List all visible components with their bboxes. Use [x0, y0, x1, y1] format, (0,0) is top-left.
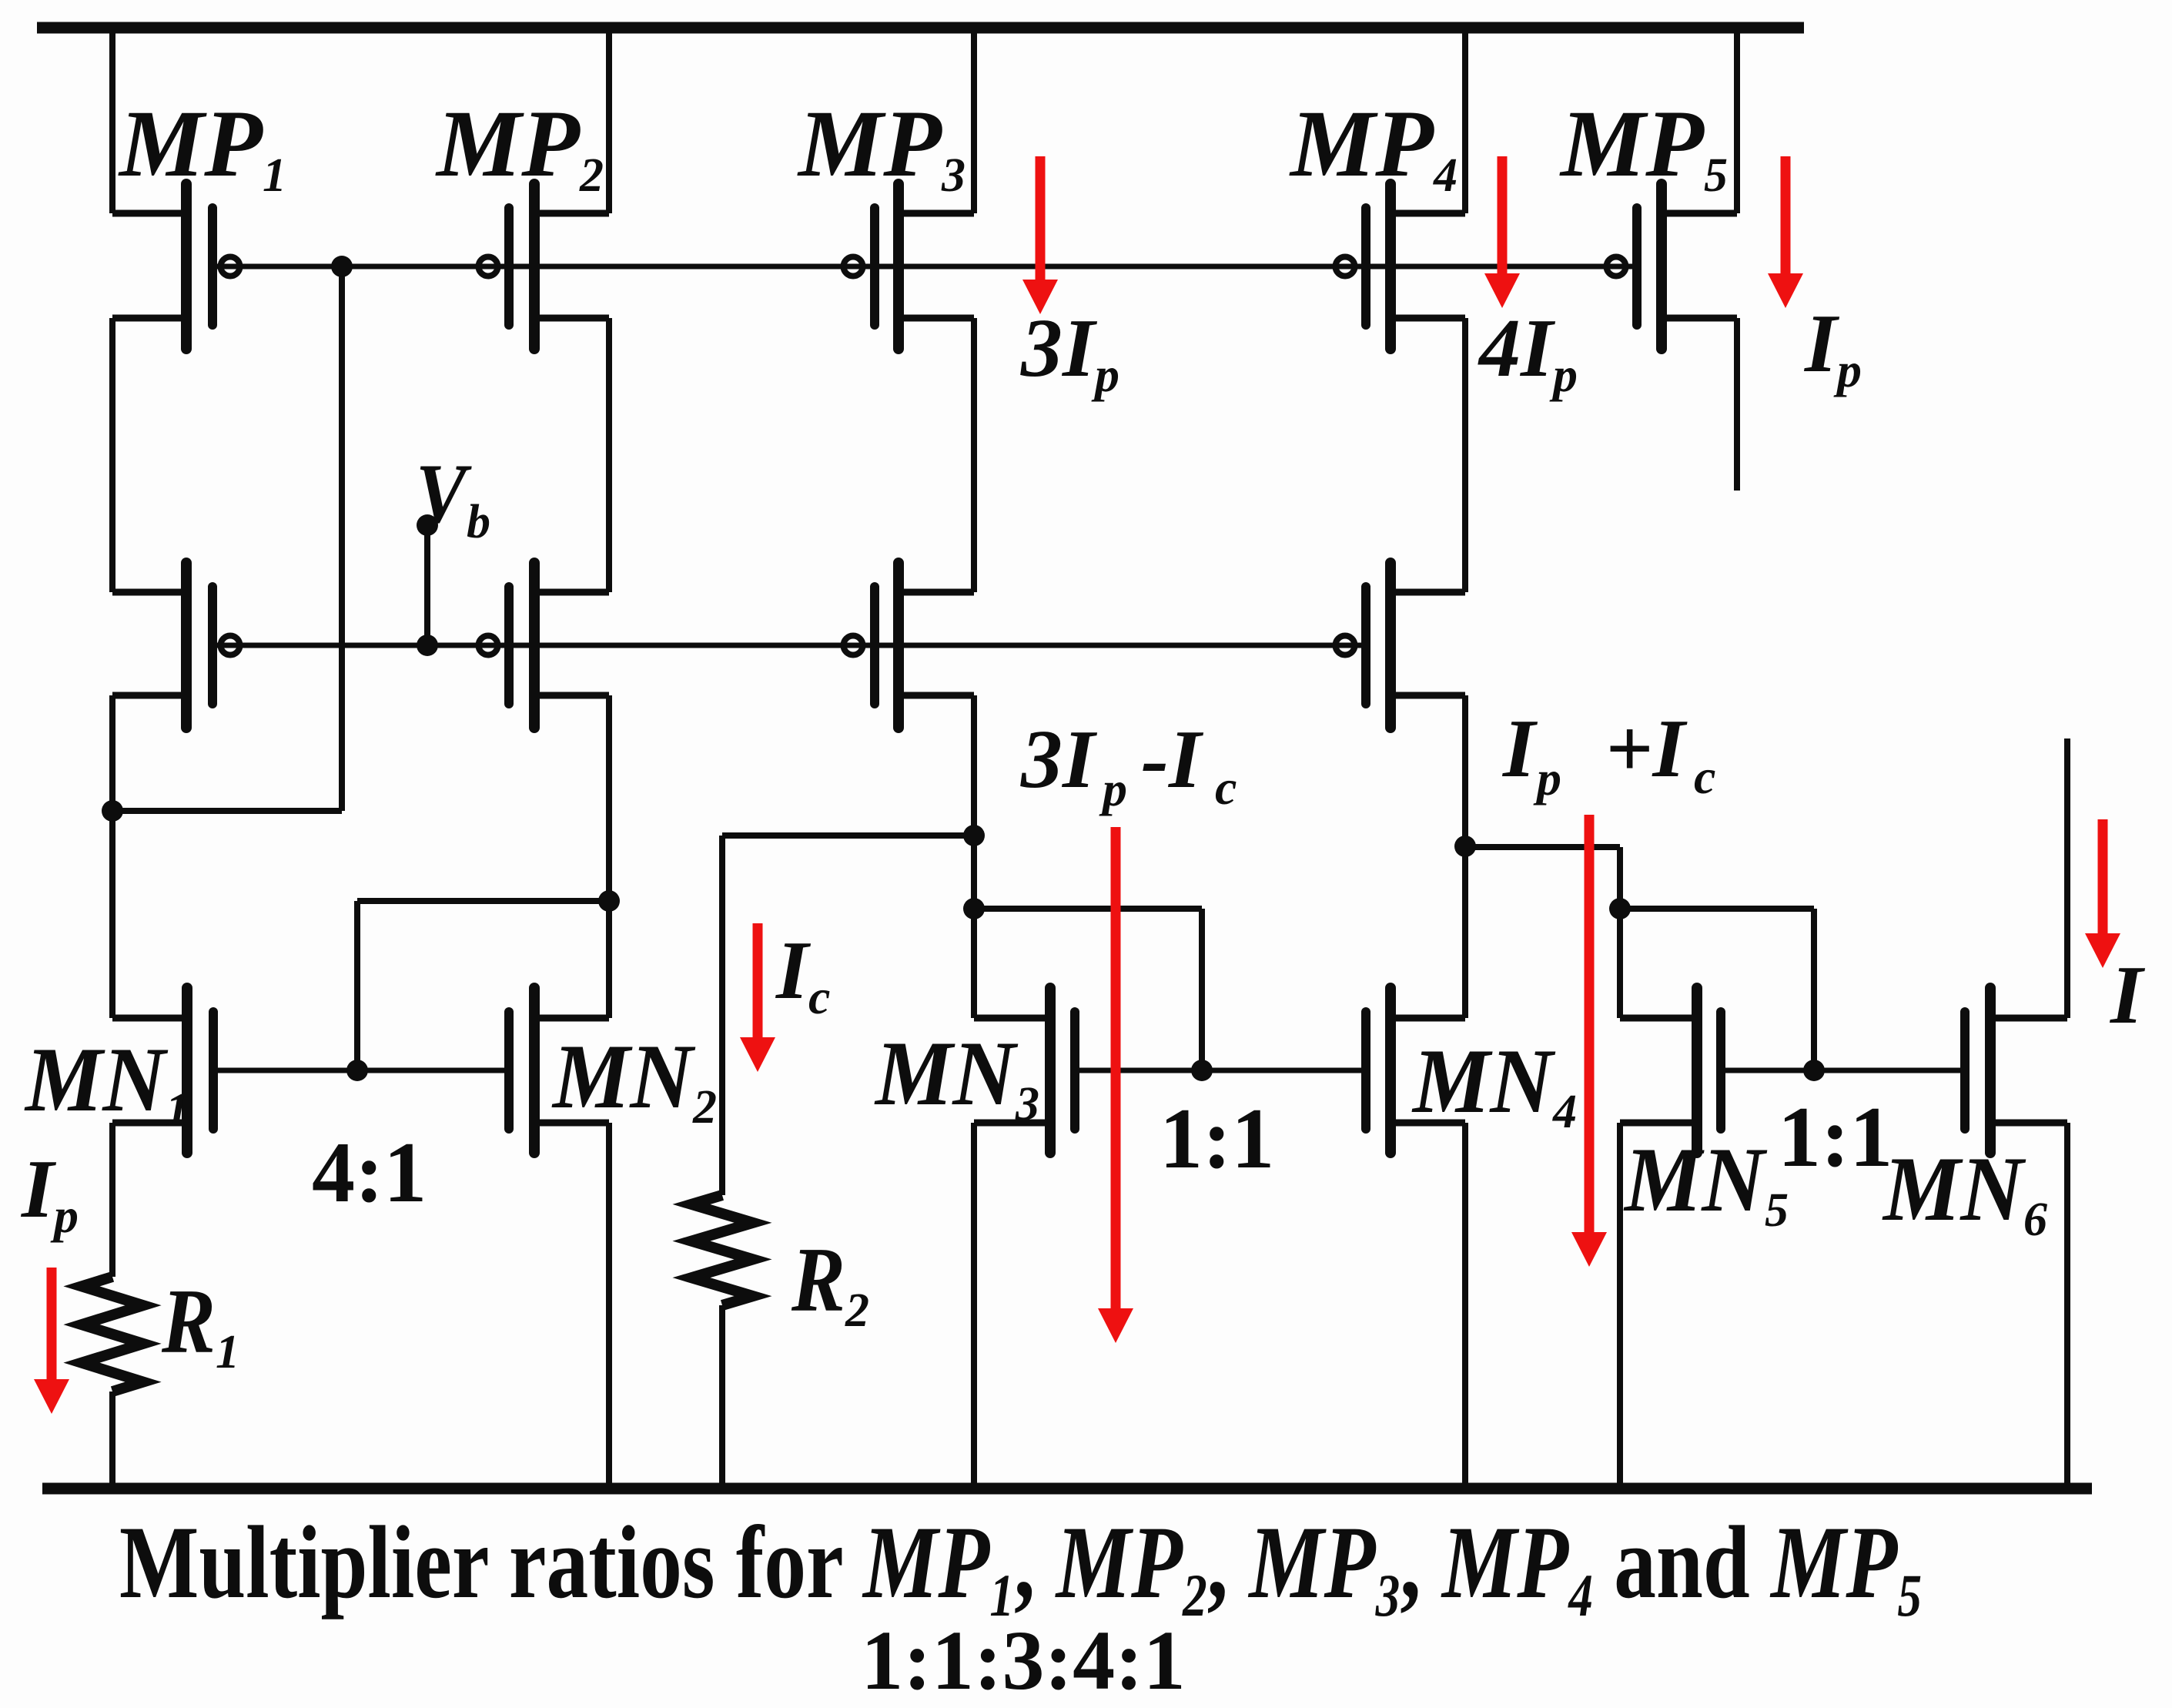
- wire MP2 source to VDD: [606, 28, 612, 213]
- label R2: [791, 1228, 869, 1337]
- wire MN5 source to VSS: [1617, 1123, 1623, 1489]
- svg-text:-I: -I: [1141, 714, 1204, 805]
- label MN2: [551, 1025, 717, 1134]
- svg-text:c: c: [1694, 749, 1715, 804]
- label MN3: [874, 1022, 1039, 1130]
- wire MN gate bias to MN2 drain: [357, 898, 609, 904]
- resistor R1: [82, 1277, 143, 1392]
- wire cascode4 drain to MN4 drain: [1462, 695, 1468, 1018]
- node feedback at cascode1 drain: [102, 800, 123, 822]
- wire MP1 source to VDD: [109, 28, 115, 213]
- label MP1: [118, 91, 286, 202]
- wire PMOS common gate line: [217, 264, 1637, 270]
- wire node to MN3/MN4 gate drop: [1199, 909, 1205, 1070]
- current arrow 4Ip: [1484, 156, 1520, 308]
- svg-text:p: p: [1533, 751, 1561, 805]
- wire MN4 drain to MN5 branch: [1465, 844, 1620, 850]
- label Ip (bottom left): [20, 1144, 79, 1243]
- svg-text:MP5: MP5: [1559, 91, 1728, 202]
- svg-text:MN2: MN2: [551, 1025, 717, 1134]
- wire MN2 source to VSS: [606, 1123, 612, 1489]
- wire MN1 source to R1: [109, 1123, 115, 1277]
- node MN5/MN6 gate junction: [1803, 1060, 1825, 1081]
- transistor MP2 (PMOS): [479, 184, 610, 349]
- label MN1: [24, 1028, 189, 1137]
- svg-text:3I: 3I: [1020, 714, 1098, 805]
- label ratio 4:1: [312, 1125, 427, 1221]
- svg-text:c: c: [1215, 760, 1237, 815]
- transistor MN6 (NMOS): [1965, 988, 2067, 1153]
- wire Vb to cascode gate row: [424, 525, 430, 645]
- transistor MP1 (PMOS, mirrored): [112, 184, 240, 349]
- current arrow Ic: [740, 923, 775, 1072]
- svg-text:MN4: MN4: [1411, 1030, 1577, 1138]
- label MN4: [1411, 1030, 1577, 1138]
- caption line 2 (1:1:3:4:1): [861, 1613, 1186, 1707]
- label MN6: [1882, 1137, 2047, 1246]
- wire R2 top lead: [719, 836, 725, 1195]
- wire MN3 source to VSS: [971, 1123, 977, 1489]
- wire MP1 gate-drain feedback drop: [339, 266, 345, 811]
- wire MP3 drain to cascode3: [971, 318, 977, 592]
- label Ic: [775, 925, 830, 1024]
- label MN5: [1623, 1128, 1789, 1237]
- svg-text:MN6: MN6: [1882, 1137, 2047, 1246]
- wire to MN5/MN6 gate drop: [1811, 909, 1817, 1070]
- svg-text:MP3: MP3: [797, 91, 966, 202]
- wire MP5 drain (Ip output, open): [1734, 318, 1740, 491]
- cascode PMOS under MP1 (mirrored): [112, 563, 240, 728]
- label 3Ip: [1020, 303, 1119, 402]
- wire MP2 drain to cascode2: [606, 318, 612, 592]
- wire cascode2 drain to MN2 drain: [606, 695, 612, 1018]
- current arrow Ip (top right): [1768, 156, 1803, 308]
- wire MN5 branch to MN6 gate drop: [1620, 906, 1814, 912]
- transistor MN1 (NMOS, gate right): [112, 988, 213, 1153]
- label Ip (top right): [1803, 298, 1862, 397]
- node 3Ip-Ic takeoff: [963, 898, 985, 919]
- svg-text:1:1: 1:1: [1160, 1091, 1274, 1187]
- node Ip+Ic takeoff: [1609, 898, 1631, 919]
- wire node 3Ip-Ic to gate drop: [974, 906, 1202, 912]
- cascode PMOS under MP2: [479, 563, 610, 728]
- cascode PMOS under MP4: [1336, 563, 1466, 728]
- svg-text:MP4: MP4: [1289, 91, 1457, 202]
- wire R2 bottom lead: [719, 1305, 725, 1489]
- transistor MN4 (NMOS): [1366, 988, 1465, 1153]
- wire MN4 source to VSS: [1462, 1123, 1468, 1489]
- svg-text:+I: +I: [1605, 703, 1688, 795]
- svg-text:MP1: MP1: [118, 91, 286, 202]
- svg-text:p: p: [1099, 762, 1127, 816]
- label ratio 1:1 (MN5:MN6): [1778, 1090, 1893, 1185]
- label 4Ip: [1478, 303, 1578, 402]
- label MP4: [1289, 91, 1457, 202]
- svg-text:1:1:3:4:1: 1:1:3:4:1: [861, 1613, 1186, 1707]
- wire MP3 source to VDD: [971, 28, 977, 213]
- svg-text:4:1: 4:1: [312, 1125, 427, 1221]
- svg-text:MN3: MN3: [874, 1022, 1039, 1130]
- transistor MN3 (NMOS, gate right): [974, 988, 1075, 1153]
- ground rail VSS (bottom): [42, 1483, 2092, 1495]
- wire cascode common gate line: [217, 643, 1366, 648]
- svg-text:I: I: [2109, 949, 2146, 1041]
- resistor R2: [691, 1195, 753, 1305]
- current arrow 3Ip: [1022, 156, 1058, 314]
- node Vb terminal: [417, 514, 438, 536]
- label MP5: [1559, 91, 1728, 202]
- label Ip+Ic: [1501, 703, 1715, 805]
- svg-text:I: I: [1501, 703, 1538, 795]
- label I (output current): [2109, 949, 2146, 1041]
- label R1: [161, 1270, 239, 1378]
- node MN1/MN2 gate junction: [346, 1060, 368, 1081]
- wire MN5/MN6 gate line: [1725, 1068, 1965, 1073]
- current arrow Ip (bottom left): [34, 1268, 69, 1414]
- svg-text:1:1: 1:1: [1778, 1090, 1893, 1185]
- transistor MP5 (PMOS): [1607, 184, 1738, 349]
- node R2 at 3Ip-Ic column: [963, 825, 985, 846]
- wire MP5 source to VDD: [1734, 28, 1740, 213]
- current arrow Ip+Ic: [1571, 815, 1607, 1267]
- svg-text:Multiplier ratios for MP1, MP2: Multiplier ratios for MP1, MP2, MP3, MP4…: [119, 1505, 1922, 1629]
- node MN3/MN4 gate junction: [1191, 1060, 1213, 1081]
- label Vb: [416, 447, 490, 548]
- transistor MP4 (PMOS): [1336, 184, 1466, 349]
- wire R2 to node 3Ip-Ic: [722, 832, 974, 839]
- node MP1 gate-drain junction: [331, 256, 353, 277]
- svg-text:MN5: MN5: [1623, 1128, 1789, 1237]
- label MP2: [435, 91, 604, 202]
- wire MN6 source to VSS: [2064, 1123, 2070, 1489]
- wire feedback to cascode1 drain: [112, 808, 342, 814]
- svg-text:MN1: MN1: [24, 1028, 189, 1137]
- node MN4 drain junction: [1454, 836, 1476, 857]
- power rail VDD (top): [37, 22, 1804, 34]
- cascode PMOS under MP3: [844, 563, 975, 728]
- wire MP4 drain to cascode4: [1462, 318, 1468, 592]
- transistor MP3 (PMOS): [844, 184, 975, 349]
- wire cascode1 drain to MN1 drain: [109, 695, 115, 1018]
- wire MN6 drain (I output, open top): [2064, 738, 2070, 1018]
- node gate bias at MN2 drain: [598, 890, 620, 912]
- wire MN3/MN4 gate line: [1079, 1068, 1366, 1073]
- wire MN1/MN2 gate line: [218, 1068, 509, 1073]
- svg-text:MP2: MP2: [435, 91, 604, 202]
- wire MN4 drain column: [1617, 847, 1623, 1018]
- current arrow I: [2085, 819, 2120, 968]
- label ratio 1:1 (MN3:MN4): [1160, 1091, 1274, 1187]
- wire MP1 drain to cascode1: [109, 318, 115, 592]
- wire MN1 gate junction riser: [354, 901, 360, 1070]
- caption line 1: [119, 1505, 1922, 1629]
- current arrow 3Ip-Ic: [1098, 827, 1133, 1343]
- transistor MN5 (NMOS, gate right): [1620, 988, 1721, 1153]
- label 3Ip-Ic: [1020, 714, 1237, 816]
- wire R1 to VSS: [109, 1392, 115, 1489]
- label MP3: [797, 91, 966, 202]
- node Vb on cascode gate line: [417, 635, 438, 656]
- wire MP4 source to VDD: [1462, 28, 1468, 213]
- wire cascode3 drain to MN3 drain: [971, 695, 977, 1018]
- transistor MN2 (NMOS): [509, 988, 609, 1153]
